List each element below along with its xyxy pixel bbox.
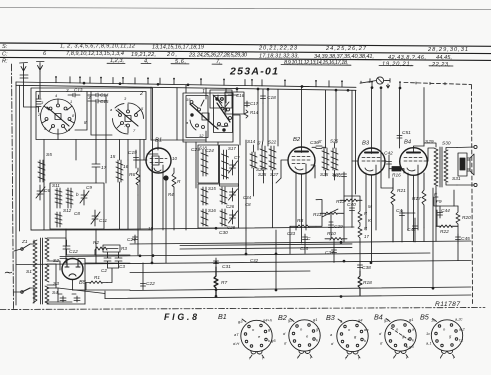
- svg-text:B5: B5: [420, 313, 430, 322]
- junction dot AGC: [380, 86, 383, 89]
- band switch SK3 wafer left: [186, 96, 218, 138]
- cap C9b: [303, 234, 308, 242]
- pilot lamp filament: [360, 78, 390, 83]
- left rail vertical B: [19, 85, 21, 231]
- resistor R18: [358, 271, 362, 296]
- labels S15 S16 C26 C28: [208, 186, 236, 230]
- switch Z1: [22, 244, 30, 292]
- svg-text:B1: B1: [218, 312, 227, 321]
- title 253A-01: [229, 66, 278, 78]
- svg-text:R4: R4: [168, 192, 174, 197]
- valve base B5 pin labels: [426, 317, 465, 361]
- valve base B2: [289, 319, 320, 358]
- svg-text:g1: g1: [313, 317, 317, 322]
- output transformer primary: [434, 148, 438, 186]
- svg-text:B2: B2: [293, 137, 301, 143]
- label R7: [221, 280, 227, 286]
- svg-text:7,8,9,10,12,13,15,1,3,4: 7,8,9,10,12,13,15,1,3,4: [66, 51, 124, 57]
- cap C27: [133, 235, 138, 243]
- label C37: [325, 250, 334, 256]
- svg-text:B1: B1: [155, 138, 162, 144]
- label R21: [397, 188, 406, 194]
- left rail vertical A: [15, 82, 17, 305]
- cap C38: [358, 262, 363, 271]
- resistor R6: [136, 168, 140, 195]
- svg-text:4,: 4,: [144, 58, 149, 64]
- svg-text:C?: C?: [234, 155, 240, 160]
- transformer secondary S3 winding: [45, 264, 49, 282]
- label S14: [247, 139, 265, 172]
- cap C3: [115, 252, 122, 268]
- svg-text:k,g5: k,g5: [268, 338, 276, 343]
- right dashed border: [472, 85, 473, 305]
- wire S2 bot: [47, 261, 60, 263]
- cap R12 network: [342, 172, 347, 196]
- bus pair extra line: [180, 244, 352, 246]
- shield box switch1: [36, 92, 146, 140]
- svg-text:C13: C13: [74, 88, 83, 93]
- label q arrow: [387, 84, 390, 88]
- svg-text:C44: C44: [441, 208, 450, 214]
- label R18: [363, 280, 372, 286]
- label R1: [94, 275, 100, 280]
- transformer T primary wires: [30, 240, 34, 303]
- IF2 coil S26: [331, 148, 338, 170]
- speaker terminal bottom: [474, 183, 477, 186]
- svg-text:R7: R7: [221, 280, 227, 286]
- label C19: [128, 150, 137, 156]
- label C40: [347, 202, 356, 208]
- wires IF1: [262, 89, 273, 183]
- svg-text:1: 1: [202, 89, 205, 95]
- svg-text:7,: 7,: [216, 59, 221, 65]
- svg-text:F9: F9: [436, 199, 442, 205]
- svg-text:C28: C28: [227, 225, 236, 230]
- trimmer C26: [229, 188, 238, 201]
- band switch SK1 wafer: [41, 99, 76, 134]
- bottom chassis dash-dot border: [0, 308, 485, 310]
- label C6: [44, 188, 50, 194]
- cap C45: [456, 234, 461, 243]
- svg-text:k,g3: k,g3: [406, 344, 414, 349]
- svg-text:R18: R18: [363, 280, 372, 286]
- long bus y229: [31, 227, 354, 230]
- svg-text:R17: R17: [412, 196, 421, 202]
- wires B3: [352, 88, 386, 264]
- resistor R13: [340, 199, 362, 202]
- resistor R22: [436, 225, 458, 228]
- tube B1: [144, 147, 171, 175]
- resistor R3 box: [103, 245, 120, 252]
- resistor chain R10: [358, 223, 362, 244]
- wires right lower: [402, 192, 458, 261]
- svg-text:C:: C:: [2, 51, 8, 57]
- label R11787: [435, 301, 460, 308]
- svg-text:20,21,22,23: 20,21,22,23: [258, 46, 298, 52]
- svg-text:2: 2: [139, 91, 143, 97]
- label R20: [462, 215, 471, 221]
- label R5: [177, 179, 181, 185]
- labels S17 S22: [257, 140, 279, 178]
- label S5: [46, 152, 52, 158]
- fuse F9: [434, 192, 438, 210]
- labels C23 C24: [191, 147, 214, 154]
- svg-text:R: R: [177, 179, 181, 185]
- svg-text:3: 3: [66, 88, 69, 93]
- cap C2: [104, 252, 111, 268]
- svg-text:C9: C9: [86, 185, 92, 190]
- svg-text:R1: R1: [94, 275, 100, 280]
- resistor R7: [214, 267, 218, 296]
- label C30: [219, 230, 228, 236]
- label C27: [127, 237, 136, 243]
- label B4 socket: [374, 313, 383, 322]
- speaker terminal top: [474, 145, 477, 148]
- svg-text:R14: R14: [250, 110, 259, 115]
- label C42: [384, 151, 393, 157]
- wires transformer: [424, 88, 436, 193]
- wires below B1: [138, 140, 206, 256]
- label R17: [412, 196, 421, 202]
- svg-text:5,6,: 5,6,: [175, 59, 186, 65]
- svg-text:g1: g1: [409, 317, 413, 322]
- wire sw interlink b: [91, 92, 112, 136]
- label C46: [407, 227, 416, 233]
- coil S14: [250, 152, 257, 168]
- svg-text:S22: S22: [268, 140, 277, 145]
- svg-text:S29: S29: [425, 139, 434, 145]
- trimmer C28: [229, 210, 238, 224]
- output transformer secondary: [444, 150, 448, 182]
- trimmer C25: [229, 160, 238, 175]
- HT corner drop double: [352, 91, 356, 199]
- svg-text:1c: 1c: [431, 318, 435, 323]
- svg-text:C4: C4: [396, 208, 402, 214]
- svg-text:S18: S18: [199, 146, 207, 151]
- cap C36: [312, 146, 326, 149]
- svg-text:C19: C19: [128, 150, 137, 156]
- bus junction dots: [83, 82, 402, 92]
- svg-text:C37: C37: [325, 250, 334, 256]
- coil box S18: [198, 145, 219, 183]
- long bus y297: [105, 295, 471, 299]
- svg-text:10: 10: [172, 156, 177, 161]
- svg-text:44,45,: 44,45,: [436, 55, 452, 61]
- svg-text:a,1: a,1: [426, 341, 432, 346]
- svg-text:C33: C33: [287, 231, 296, 236]
- cap C51: [397, 88, 402, 148]
- svg-text:∼: ∼: [3, 267, 13, 279]
- label B2: [293, 137, 301, 143]
- svg-text:3: 3: [88, 95, 91, 100]
- svg-text:S30: S30: [442, 141, 451, 147]
- coil S8 hatch: [66, 188, 73, 208]
- svg-text:C2: C2: [101, 268, 107, 273]
- svg-text:B5: B5: [79, 280, 87, 286]
- svg-text:C45: C45: [461, 236, 470, 242]
- svg-text:do: do: [364, 327, 369, 332]
- svg-text:C12: C12: [69, 249, 78, 255]
- switch SK2 numerals: [110, 96, 144, 133]
- svg-text:M: M: [368, 204, 372, 209]
- svg-text:C8: C8: [245, 202, 251, 207]
- svg-text:C: C: [307, 236, 311, 242]
- switch SK3 numerals: [186, 96, 224, 138]
- label B1 socket: [218, 312, 227, 321]
- coil S7: [55, 188, 62, 208]
- label R11: [313, 212, 322, 218]
- svg-text:1, 2, 3,4,5,6,7,8,9,10,11,12: 1, 2, 3,4,5,6,7,8,9,10,11,12: [60, 44, 136, 50]
- box C16 C17 R14: [225, 92, 244, 114]
- gimmick cap C1: [20, 75, 28, 78]
- svg-text:R11: R11: [313, 212, 322, 218]
- svg-text:C11: C11: [99, 218, 108, 223]
- transformer primary winding: [33, 240, 37, 303]
- labels C16 C17 R14: [236, 93, 259, 115]
- label R6: [129, 172, 135, 178]
- svg-text:R11787: R11787: [435, 301, 460, 308]
- svg-text:g2: g2: [288, 318, 293, 323]
- wire B2 grid rail: [277, 89, 279, 146]
- choke S? wire to R2: [66, 250, 95, 255]
- cap C29: [329, 222, 334, 231]
- svg-text:17: 17: [364, 234, 369, 239]
- svg-text:C40: C40: [347, 202, 356, 208]
- svg-text:d.H: d.H: [233, 341, 239, 346]
- svg-text:Z1: Z1: [21, 239, 28, 245]
- valve base B5: [431, 319, 462, 358]
- band switch SK3 wafer right: [214, 96, 233, 133]
- label B3: [362, 141, 370, 147]
- svg-text:S27: S27: [270, 172, 279, 177]
- svg-text:b: b: [76, 192, 79, 197]
- label C22: [146, 281, 155, 287]
- earth lead wire: [39, 71, 41, 98]
- index table rule 1: [0, 43, 491, 46]
- label B3 socket: [326, 313, 335, 322]
- svg-text:S25: S25: [320, 172, 329, 177]
- index table rule 3: [0, 57, 491, 60]
- cap C17: [245, 101, 250, 107]
- long bus y243: [130, 241, 471, 244]
- transformer core: [41, 238, 43, 304]
- svg-text:R6: R6: [129, 172, 135, 178]
- mains tilde: [3, 267, 13, 279]
- resistor R17: [422, 173, 426, 228]
- svg-text:S12: S12: [63, 208, 72, 213]
- svg-text:R20: R20: [462, 215, 471, 221]
- wires B4: [408, 146, 428, 242]
- wires B2: [281, 86, 315, 243]
- label S31: [452, 176, 461, 182]
- label C36: [310, 140, 319, 146]
- label B5: [79, 280, 87, 286]
- wire S2 top to B5: [47, 238, 66, 255]
- label C7: [101, 165, 107, 171]
- valve base B3: [337, 319, 368, 358]
- resistor R11: [320, 209, 342, 217]
- shield box RF left outer: [31, 88, 153, 230]
- svg-text:C3: C3: [119, 264, 125, 269]
- label S6: [110, 154, 129, 170]
- rectifier tube B5: [62, 259, 83, 280]
- speaker cone: [467, 154, 474, 175]
- labels K M chain: [364, 211, 369, 239]
- long bus y248 pair: [180, 247, 352, 249]
- svg-text:B3: B3: [362, 141, 370, 147]
- long bus y255: [60, 253, 430, 257]
- svg-text:S': S': [318, 139, 322, 144]
- wires speaker terminals: [457, 147, 474, 185]
- svg-text:R16: R16: [392, 173, 401, 179]
- svg-text:g3: g3: [238, 319, 243, 324]
- label C45: [461, 236, 470, 242]
- svg-text:34,39,38,37,35,40,38,41,: 34,39,38,37,35,40,38,41,: [314, 54, 374, 60]
- coil S6: [116, 160, 123, 182]
- svg-text:C6: C6: [44, 188, 50, 194]
- resistor chain R9: [358, 206, 362, 223]
- label R13: [336, 199, 345, 205]
- svg-text:12: 12: [199, 133, 204, 138]
- aerial terminal arrow: [20, 63, 28, 73]
- coil box S23: [220, 145, 239, 186]
- label C38: [362, 265, 371, 271]
- valve base B4 pin labels: [379, 317, 415, 360]
- index table rule 4 segments: [107, 63, 453, 66]
- wire grid riser left: [150, 87, 152, 140]
- band switch SK2 wafer: [113, 103, 144, 134]
- wires IF2: [326, 90, 337, 180]
- svg-text:16: 16: [216, 123, 221, 128]
- aerial lead wire: [24, 72, 39, 107]
- labels C8 C10 S6: [52, 183, 108, 223]
- svg-text:C15: C15: [100, 99, 109, 104]
- svg-text:1,2,3,: 1,2,3,: [110, 58, 124, 64]
- svg-text:20,: 20,: [166, 52, 177, 58]
- labels S28 S30: [425, 139, 451, 147]
- wire sw1 drops: [44, 95, 140, 184]
- svg-text:S25: S25: [258, 172, 267, 177]
- electrolytic C1b: [72, 294, 80, 302]
- cap C14: [88, 93, 106, 97]
- label C14 C15: [88, 93, 109, 105]
- svg-text:1c: 1c: [426, 331, 430, 336]
- hum wires bottom-left: [56, 255, 130, 304]
- shield box output corner: [433, 188, 454, 288]
- svg-text:a,2c: a,2c: [455, 317, 463, 322]
- wire AGC riser: [381, 88, 393, 188]
- resistor R20: [456, 206, 460, 240]
- svg-text:f,1: f,1: [459, 338, 463, 343]
- wire drop mid1: [152, 178, 281, 290]
- cap C18: [261, 89, 266, 103]
- label figure 2: [139, 89, 205, 97]
- valve base B3 pin labels: [330, 318, 369, 361]
- label Z1: [21, 239, 28, 245]
- pilot lamp: [376, 77, 383, 84]
- svg-text:13,14,15,16,17,18,19: 13,14,15,16,17,18,19: [152, 45, 204, 51]
- svg-text:S': S': [257, 141, 261, 146]
- wire B5 anode top: [60, 259, 85, 264]
- tick dots: [55, 76, 401, 83]
- svg-text:C14: C14: [100, 93, 109, 98]
- svg-text:aT: aT: [234, 332, 239, 337]
- svg-text:R10: R10: [327, 231, 336, 237]
- tube B2: [288, 147, 315, 174]
- tube B4: [400, 148, 428, 176]
- wire sw interlink a: [75, 92, 87, 131]
- svg-text:8,9,10,11,12,13,14,15,16,17,18: 8,9,10,11,12,13,14,15,16,17,18,: [284, 60, 348, 66]
- valve base B4: [385, 319, 416, 358]
- wires detector: [290, 196, 360, 262]
- svg-text:1: 1: [70, 99, 72, 104]
- svg-text:23, 24,25,26,27,28,5,29,30: 23, 24,25,26,27,28,5,29,30: [188, 53, 248, 59]
- labels S1 S2 S3 S4: [26, 258, 59, 296]
- long bus y289: [130, 287, 471, 291]
- svg-text:S15: S15: [208, 186, 216, 191]
- output transformer core: [440, 147, 442, 187]
- coil S11: [55, 212, 62, 227]
- tube B3: [358, 148, 385, 175]
- cap C40: [350, 205, 355, 213]
- IF1 coil S17: [260, 146, 267, 170]
- svg-text:FIG.8: FIG.8: [164, 312, 197, 322]
- resistor R16 solid: [392, 167, 401, 172]
- label R22: [440, 229, 449, 235]
- label R2 R3: [93, 240, 127, 251]
- coil S15: [201, 187, 208, 205]
- svg-text:R21: R21: [397, 188, 406, 194]
- resistor R10b: [325, 238, 347, 241]
- svg-text:R12: R12: [333, 173, 342, 178]
- ticks pointer row on bus: [56, 77, 445, 89]
- IF1 coil S22: [269, 146, 276, 170]
- resistor R14: [244, 110, 248, 118]
- coil S23: [222, 150, 229, 179]
- coil S18: [201, 150, 208, 176]
- wire B5 cathode: [72, 280, 74, 291]
- blob G1: [163, 175, 168, 180]
- cap C43: [400, 210, 405, 242]
- label C13: [66, 88, 83, 94]
- svg-text:C8: C8: [74, 211, 80, 216]
- svg-text:S:: S:: [2, 44, 8, 50]
- label B1: [155, 138, 162, 144]
- svg-text:15: 15: [186, 97, 191, 102]
- coil S21: [220, 209, 227, 226]
- svg-text:g4+h: g4+h: [263, 318, 273, 323]
- trimmer C11: [91, 210, 100, 226]
- bus junction dots row: [139, 227, 435, 298]
- wire heater run: [58, 263, 130, 294]
- svg-text:B4: B4: [404, 140, 411, 146]
- cap C22: [141, 263, 146, 290]
- label C29: [334, 224, 343, 230]
- svg-text:C16: C16: [236, 93, 245, 98]
- wire C42 net: [382, 161, 404, 178]
- coil S5: [38, 160, 45, 182]
- labels sprinkle: [84, 120, 372, 263]
- transformer secondary S4 winding: [45, 286, 49, 304]
- svg-text:a,2: a,2: [459, 327, 465, 332]
- svg-text:g2: g2: [384, 318, 389, 323]
- mains wires: [14, 249, 21, 292]
- svg-text:C42: C42: [384, 151, 393, 157]
- trimmer stack left: [36, 95, 41, 112]
- wire left drops: [44, 140, 140, 264]
- cap C46: [413, 223, 418, 232]
- bus left endcap: [104, 291, 106, 299]
